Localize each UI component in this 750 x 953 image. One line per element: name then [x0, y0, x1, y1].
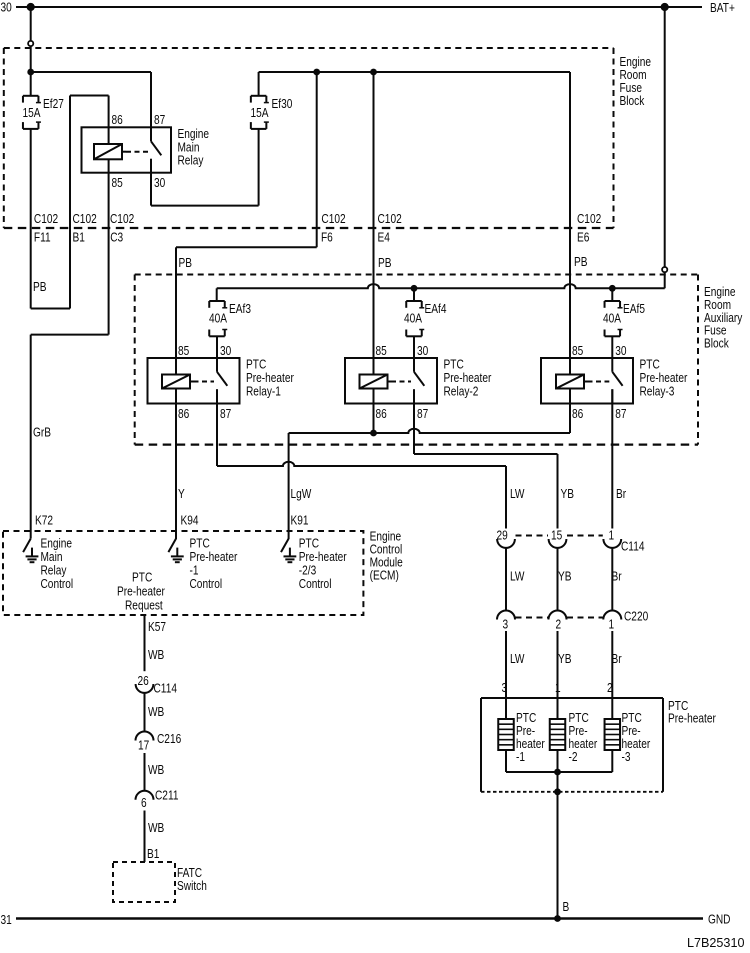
svg-text:E6: E6	[577, 230, 589, 244]
svg-text:Main: Main	[41, 550, 63, 564]
svg-text:WB: WB	[148, 763, 165, 777]
svg-text:-3: -3	[622, 750, 631, 764]
svg-text:Pre-heater: Pre-heater	[299, 550, 347, 564]
svg-text:PTC: PTC	[246, 357, 266, 371]
svg-text:1: 1	[609, 528, 615, 542]
svg-text:EAf3: EAf3	[229, 302, 251, 316]
svg-text:Pre-heater: Pre-heater	[640, 371, 688, 385]
svg-text:15A: 15A	[23, 106, 41, 120]
svg-text:Relay-2: Relay-2	[444, 384, 479, 398]
svg-text:85: 85	[112, 176, 123, 190]
svg-text:Control: Control	[190, 577, 223, 591]
svg-text:Pre-heater: Pre-heater	[444, 371, 492, 385]
svg-text:85: 85	[178, 344, 189, 358]
svg-text:L7B25310: L7B25310	[687, 935, 744, 950]
svg-text:C102: C102	[321, 212, 345, 226]
svg-text:40A: 40A	[209, 311, 227, 325]
svg-text:85: 85	[572, 344, 583, 358]
svg-text:PB: PB	[179, 256, 193, 270]
svg-text:B1: B1	[147, 847, 159, 861]
svg-text:3: 3	[502, 681, 508, 695]
svg-text:K72: K72	[35, 513, 53, 527]
svg-text:Block: Block	[704, 336, 729, 350]
svg-text:15: 15	[551, 528, 562, 542]
svg-text:-2/3: -2/3	[299, 563, 316, 577]
svg-text:C102: C102	[577, 212, 601, 226]
svg-text:85: 85	[376, 344, 387, 358]
svg-text:87: 87	[220, 407, 231, 421]
svg-text:YB: YB	[558, 569, 572, 583]
svg-text:Pre-heater: Pre-heater	[117, 584, 165, 598]
svg-text:C211: C211	[155, 788, 178, 802]
svg-text:GND: GND	[708, 912, 731, 926]
svg-text:Pre-heater: Pre-heater	[190, 550, 238, 564]
svg-text:-1: -1	[516, 750, 525, 764]
svg-text:WB: WB	[148, 821, 165, 835]
svg-text:PTC: PTC	[444, 357, 464, 371]
svg-text:PB: PB	[33, 280, 47, 294]
svg-text:1: 1	[555, 681, 561, 695]
svg-text:86: 86	[178, 407, 189, 421]
svg-text:PTC: PTC	[640, 357, 660, 371]
svg-text:C102: C102	[378, 212, 402, 226]
svg-text:K57: K57	[148, 620, 166, 634]
svg-text:B: B	[563, 900, 570, 914]
svg-text:31: 31	[1, 913, 12, 927]
svg-text:LW: LW	[510, 487, 524, 501]
svg-text:PTC: PTC	[299, 536, 319, 550]
svg-text:Relay-1: Relay-1	[246, 384, 281, 398]
svg-text:Br: Br	[612, 569, 622, 583]
svg-text:PB: PB	[378, 256, 392, 270]
svg-text:WB: WB	[148, 705, 165, 719]
svg-text:40A: 40A	[404, 311, 422, 325]
svg-text:WB: WB	[148, 648, 165, 662]
svg-text:29: 29	[497, 528, 508, 542]
svg-text:C102: C102	[73, 212, 97, 226]
svg-text:Control: Control	[41, 577, 74, 591]
svg-text:Relay: Relay	[41, 563, 67, 577]
svg-text:3: 3	[503, 617, 509, 631]
svg-text:F11: F11	[34, 230, 51, 244]
svg-text:LW: LW	[510, 652, 524, 666]
svg-text:E4: E4	[378, 230, 391, 244]
svg-text:87: 87	[615, 407, 626, 421]
svg-text:Block: Block	[620, 94, 645, 108]
svg-text:K94: K94	[181, 513, 199, 527]
svg-text:Ef27: Ef27	[43, 97, 64, 111]
svg-text:YB: YB	[558, 652, 572, 666]
svg-text:PTC: PTC	[132, 570, 152, 584]
svg-text:2: 2	[607, 681, 613, 695]
svg-text:Pre-heater: Pre-heater	[668, 711, 716, 725]
svg-text:EAf5: EAf5	[623, 302, 645, 316]
svg-text:15A: 15A	[251, 106, 269, 120]
svg-text:Engine: Engine	[41, 536, 73, 550]
svg-text:86: 86	[112, 113, 123, 127]
svg-text:Switch: Switch	[177, 879, 207, 893]
svg-text:C102: C102	[110, 212, 134, 226]
svg-text:Br: Br	[612, 652, 622, 666]
svg-text:87: 87	[154, 113, 165, 127]
svg-text:87: 87	[417, 407, 428, 421]
svg-text:Y: Y	[178, 487, 185, 501]
svg-text:Request: Request	[125, 598, 163, 612]
svg-text:C3: C3	[110, 230, 123, 244]
svg-text:EAf4: EAf4	[425, 302, 447, 316]
svg-text:C114: C114	[621, 539, 645, 553]
svg-text:PTC: PTC	[190, 536, 210, 550]
svg-text:LgW: LgW	[291, 487, 312, 501]
svg-text:C114: C114	[154, 681, 178, 695]
svg-text:Control: Control	[299, 577, 332, 591]
svg-text:30: 30	[220, 344, 232, 358]
svg-text:6: 6	[141, 796, 147, 810]
svg-text:Pre-heater: Pre-heater	[246, 371, 294, 385]
svg-text:C216: C216	[157, 732, 181, 746]
svg-text:-2: -2	[569, 750, 578, 764]
svg-text:17: 17	[138, 738, 149, 752]
svg-text:Relay-3: Relay-3	[640, 384, 675, 398]
svg-text:C220: C220	[624, 609, 649, 623]
svg-text:2: 2	[556, 617, 562, 631]
svg-text:30: 30	[615, 344, 627, 358]
svg-text:F6: F6	[321, 230, 333, 244]
svg-text:26: 26	[138, 674, 149, 688]
svg-text:LW: LW	[510, 569, 524, 583]
svg-text:Relay: Relay	[178, 153, 204, 167]
svg-text:Br: Br	[616, 487, 626, 501]
svg-text:30: 30	[417, 344, 429, 358]
svg-text:30: 30	[1, 0, 13, 14]
svg-text:PB: PB	[574, 255, 588, 269]
svg-text:K91: K91	[291, 513, 309, 527]
svg-text:40A: 40A	[603, 311, 621, 325]
svg-text:86: 86	[572, 407, 583, 421]
svg-text:30: 30	[154, 176, 166, 190]
svg-text:1: 1	[609, 617, 615, 631]
svg-text:(ECM): (ECM)	[370, 568, 399, 582]
svg-text:BAT+: BAT+	[710, 1, 735, 15]
svg-text:86: 86	[376, 407, 387, 421]
svg-text:GrB: GrB	[33, 425, 51, 439]
svg-text:-1: -1	[190, 563, 199, 577]
svg-text:B1: B1	[73, 230, 85, 244]
svg-text:C102: C102	[34, 212, 58, 226]
svg-text:YB: YB	[561, 487, 575, 501]
svg-text:Ef30: Ef30	[272, 97, 293, 111]
